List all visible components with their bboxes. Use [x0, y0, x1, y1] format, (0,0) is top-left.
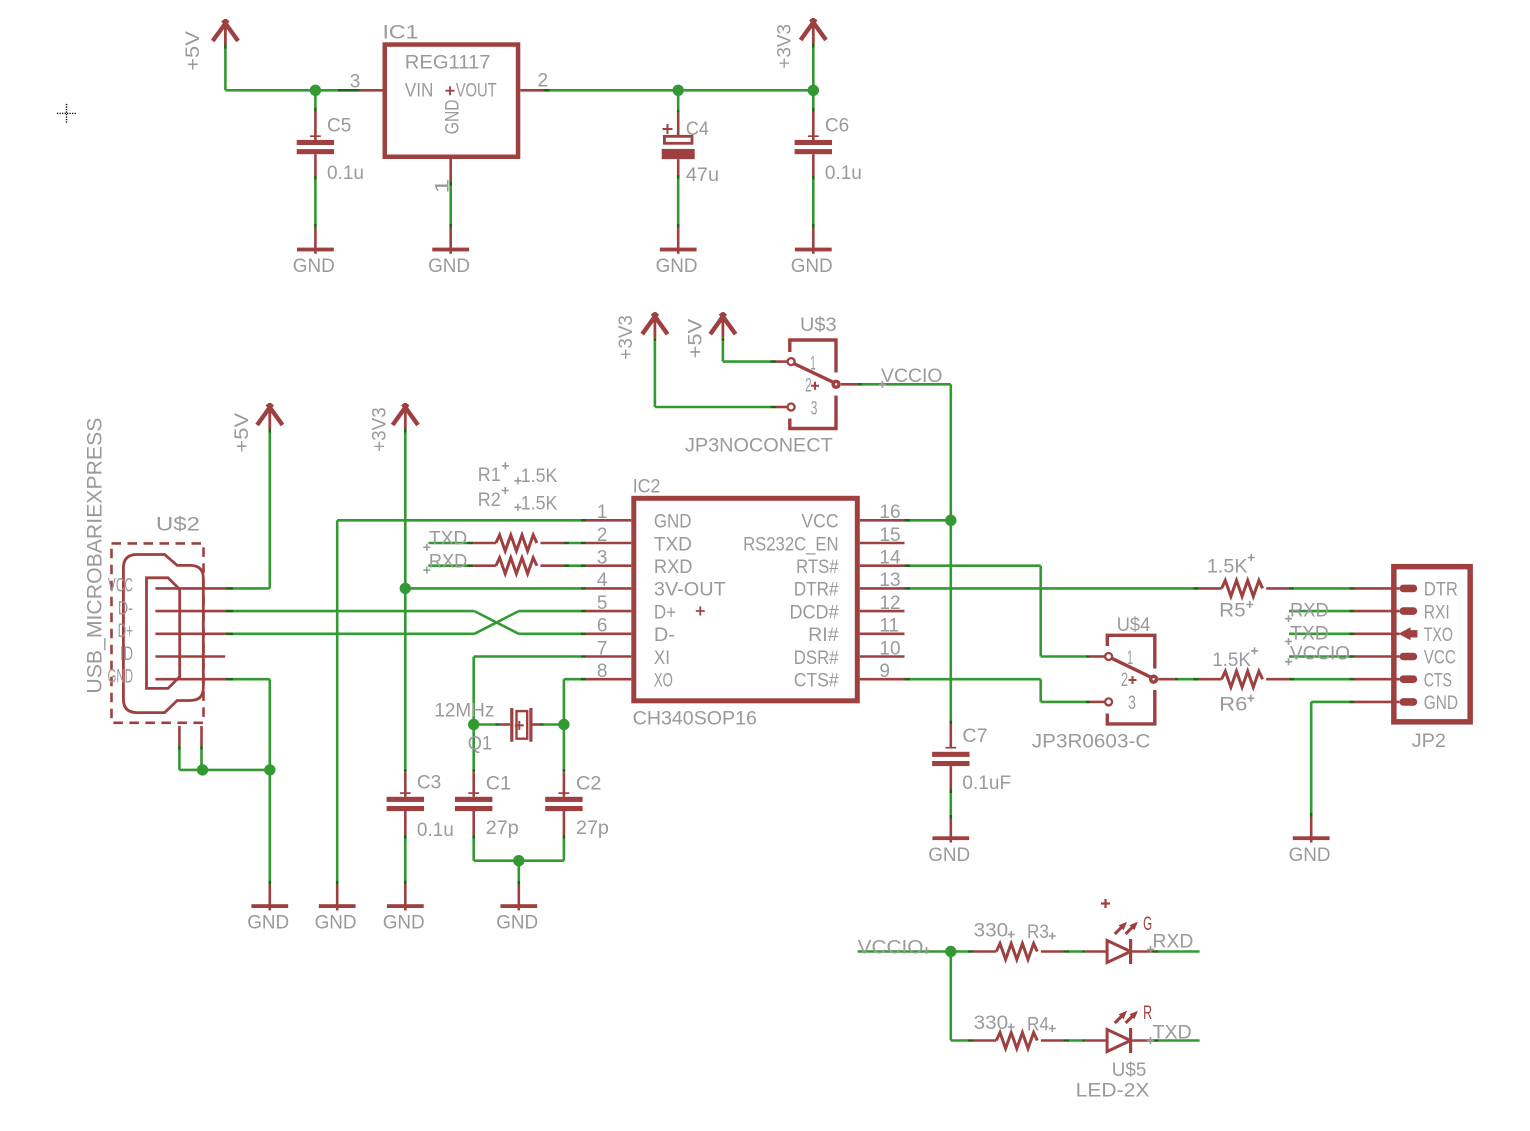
svg-text:0.1uF: 0.1uF	[962, 773, 1011, 794]
svg-text:JP3NOCONECT: JP3NOCONECT	[685, 435, 833, 456]
svg-text:R1: R1	[478, 465, 501, 486]
svg-text:1: 1	[810, 354, 816, 375]
svg-text:2: 2	[805, 376, 812, 397]
svg-text:REG1117: REG1117	[405, 52, 491, 73]
svg-text:GND: GND	[383, 913, 425, 934]
svg-text:GND: GND	[443, 99, 464, 134]
svg-text:C7: C7	[962, 726, 987, 747]
svg-text:RXD: RXD	[1290, 601, 1329, 622]
svg-text:GND: GND	[108, 667, 134, 688]
svg-text:GND: GND	[791, 256, 833, 277]
svg-text:0.1u: 0.1u	[327, 163, 364, 184]
svg-text:1: 1	[597, 502, 608, 523]
svg-text:330: 330	[974, 1013, 1009, 1034]
svg-text:VCC: VCC	[1424, 648, 1456, 669]
svg-text:Q1: Q1	[468, 733, 492, 754]
svg-text:RXD: RXD	[654, 557, 693, 578]
svg-text:TXO: TXO	[1424, 625, 1453, 646]
svg-text:3: 3	[1128, 693, 1136, 714]
svg-text:XI: XI	[654, 648, 670, 669]
svg-text:C1: C1	[486, 774, 511, 795]
svg-text:9: 9	[879, 661, 890, 682]
svg-text:GND: GND	[247, 913, 289, 934]
svg-text:0.1u: 0.1u	[825, 163, 862, 184]
svg-text:GND: GND	[496, 913, 538, 934]
svg-text:RXD: RXD	[1153, 931, 1194, 952]
svg-text:GND: GND	[1289, 845, 1331, 866]
svg-text:1.5K: 1.5K	[521, 466, 558, 487]
svg-text:D-: D-	[654, 625, 675, 646]
svg-text:GND: GND	[315, 913, 357, 934]
svg-text:15: 15	[879, 525, 900, 546]
svg-text:U$5: U$5	[1112, 1060, 1147, 1081]
svg-text:1.5K: 1.5K	[1212, 650, 1251, 671]
svg-text:VCC: VCC	[801, 512, 838, 533]
svg-text:RS232C_EN: RS232C_EN	[743, 534, 839, 555]
svg-text:GND: GND	[928, 845, 970, 866]
svg-text:GND: GND	[1424, 693, 1458, 714]
svg-text:3: 3	[350, 71, 361, 92]
svg-text:GND: GND	[654, 512, 692, 533]
svg-text:VIN: VIN	[405, 81, 434, 102]
svg-text:27p: 27p	[486, 818, 519, 839]
svg-text:4: 4	[597, 570, 608, 591]
svg-text:11: 11	[879, 616, 899, 637]
svg-text:C3: C3	[417, 773, 441, 794]
svg-text:+3V3: +3V3	[775, 24, 796, 69]
svg-text:1.5K: 1.5K	[521, 494, 558, 515]
svg-text:+3V3: +3V3	[369, 407, 390, 452]
svg-text:GND: GND	[656, 256, 698, 277]
svg-text:RI#: RI#	[808, 625, 839, 646]
svg-text:16: 16	[879, 502, 900, 523]
svg-text:XO: XO	[654, 671, 673, 692]
svg-text:DSR#: DSR#	[794, 648, 839, 669]
svg-text:U$4: U$4	[1117, 615, 1151, 636]
svg-text:12MHz: 12MHz	[434, 700, 494, 721]
svg-text:RTS#: RTS#	[796, 557, 839, 578]
svg-text:VCCIO: VCCIO	[881, 366, 943, 387]
svg-text:U$2: U$2	[156, 515, 200, 536]
svg-text:VCC: VCC	[108, 576, 133, 597]
svg-text:CTS#: CTS#	[794, 671, 839, 692]
svg-text:R6: R6	[1219, 694, 1247, 715]
svg-text:RXI: RXI	[1424, 602, 1450, 623]
svg-text:CH340SOP16: CH340SOP16	[633, 709, 757, 730]
svg-text:7: 7	[597, 638, 608, 659]
svg-text:GND: GND	[293, 256, 335, 277]
svg-text:C2: C2	[576, 774, 601, 795]
svg-text:G: G	[1143, 914, 1152, 935]
svg-text:JP2: JP2	[1412, 731, 1446, 752]
svg-text:CTS: CTS	[1424, 670, 1452, 691]
svg-text:IC2: IC2	[633, 477, 661, 498]
svg-text:1.5K: 1.5K	[1207, 557, 1248, 578]
svg-text:TXD: TXD	[1290, 623, 1329, 644]
svg-text:13: 13	[879, 570, 900, 591]
svg-text:VOUT: VOUT	[456, 81, 497, 102]
svg-text:VCCIO: VCCIO	[858, 938, 924, 959]
svg-text:+5V: +5V	[183, 31, 204, 71]
svg-text:D-: D-	[118, 598, 133, 619]
svg-text:8: 8	[597, 661, 608, 682]
svg-text:330: 330	[974, 921, 1009, 942]
svg-text:R3: R3	[1027, 922, 1049, 943]
svg-text:ID: ID	[120, 644, 133, 665]
svg-text:DTR#: DTR#	[794, 580, 839, 601]
svg-text:27p: 27p	[576, 818, 609, 839]
svg-text:C5: C5	[327, 116, 351, 137]
svg-text:0.1u: 0.1u	[417, 820, 454, 841]
svg-text:VCCIO: VCCIO	[1290, 644, 1350, 665]
svg-text:2: 2	[538, 71, 549, 92]
svg-text:+5V: +5V	[685, 318, 706, 358]
svg-text:GND: GND	[428, 256, 470, 277]
svg-text:TXD: TXD	[1153, 1022, 1192, 1043]
svg-text:+3V3: +3V3	[616, 315, 637, 360]
svg-text:RXD: RXD	[429, 551, 467, 572]
svg-text:R2: R2	[478, 490, 501, 511]
svg-text:C6: C6	[825, 116, 849, 137]
svg-text:2: 2	[597, 525, 608, 546]
svg-text:D+: D+	[118, 621, 133, 642]
svg-text:USB_MICROBARIEXPRESS: USB_MICROBARIEXPRESS	[83, 418, 107, 694]
svg-text:R: R	[1143, 1003, 1152, 1024]
svg-text:3V-OUT: 3V-OUT	[654, 580, 726, 601]
svg-text:R4: R4	[1027, 1015, 1049, 1036]
svg-text:TXD: TXD	[429, 529, 467, 550]
svg-text:5: 5	[597, 593, 608, 614]
svg-text:R5: R5	[1219, 601, 1246, 622]
svg-text:2: 2	[1121, 670, 1128, 691]
svg-text:1: 1	[432, 179, 453, 194]
svg-text:3: 3	[811, 399, 818, 420]
svg-text:14: 14	[879, 548, 901, 569]
svg-text:3: 3	[597, 548, 608, 569]
svg-text:6: 6	[597, 616, 608, 637]
svg-text:DTR: DTR	[1424, 580, 1458, 601]
svg-text:DCD#: DCD#	[790, 602, 840, 623]
svg-text:D+: D+	[654, 602, 676, 623]
svg-text:LED-2X: LED-2X	[1076, 1081, 1150, 1102]
svg-text:C4: C4	[686, 119, 709, 140]
svg-text:JP3R0603-C: JP3R0603-C	[1032, 732, 1151, 753]
svg-text:IC1: IC1	[383, 23, 419, 44]
svg-text:12: 12	[879, 593, 900, 614]
svg-text:TXD: TXD	[654, 534, 692, 555]
svg-text:47u: 47u	[686, 165, 719, 186]
svg-text:+5V: +5V	[232, 413, 253, 453]
svg-text:10: 10	[879, 638, 900, 659]
svg-text:U$3: U$3	[800, 315, 837, 336]
svg-text:1: 1	[1127, 648, 1133, 669]
